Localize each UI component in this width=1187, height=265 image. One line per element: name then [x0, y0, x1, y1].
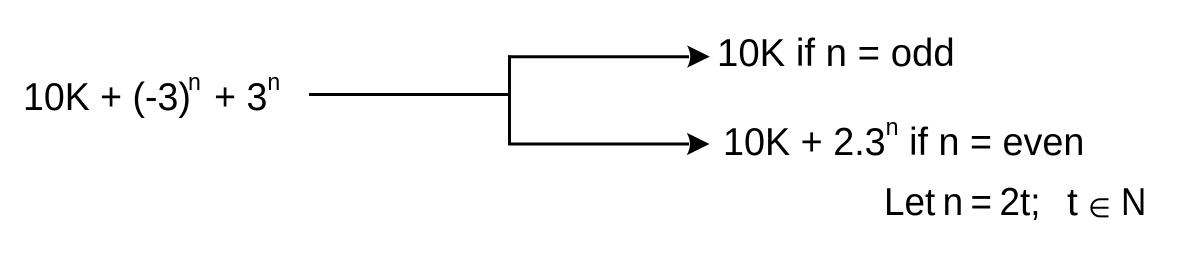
note: t — [1067, 183, 1078, 222]
arrowhead: bottom branch — [687, 133, 710, 155]
expression 10K + (-3)^n + 3^n — [23, 78, 280, 117]
label: 10K + 2.3^n if n = even — [723, 123, 1084, 162]
element-of symbol — [1089, 198, 1110, 218]
arrowhead: top branch — [687, 45, 710, 67]
wire: stem from expression — [309, 93, 510, 96]
wire: bottom branch shaft — [508, 143, 689, 146]
label: 10K if n = odd — [717, 34, 955, 73]
note: Let n = 2t; — [884, 183, 1040, 222]
note: N — [1121, 183, 1146, 222]
wire: vertical branch bar — [508, 55, 511, 145]
wire: top branch shaft — [508, 55, 689, 58]
